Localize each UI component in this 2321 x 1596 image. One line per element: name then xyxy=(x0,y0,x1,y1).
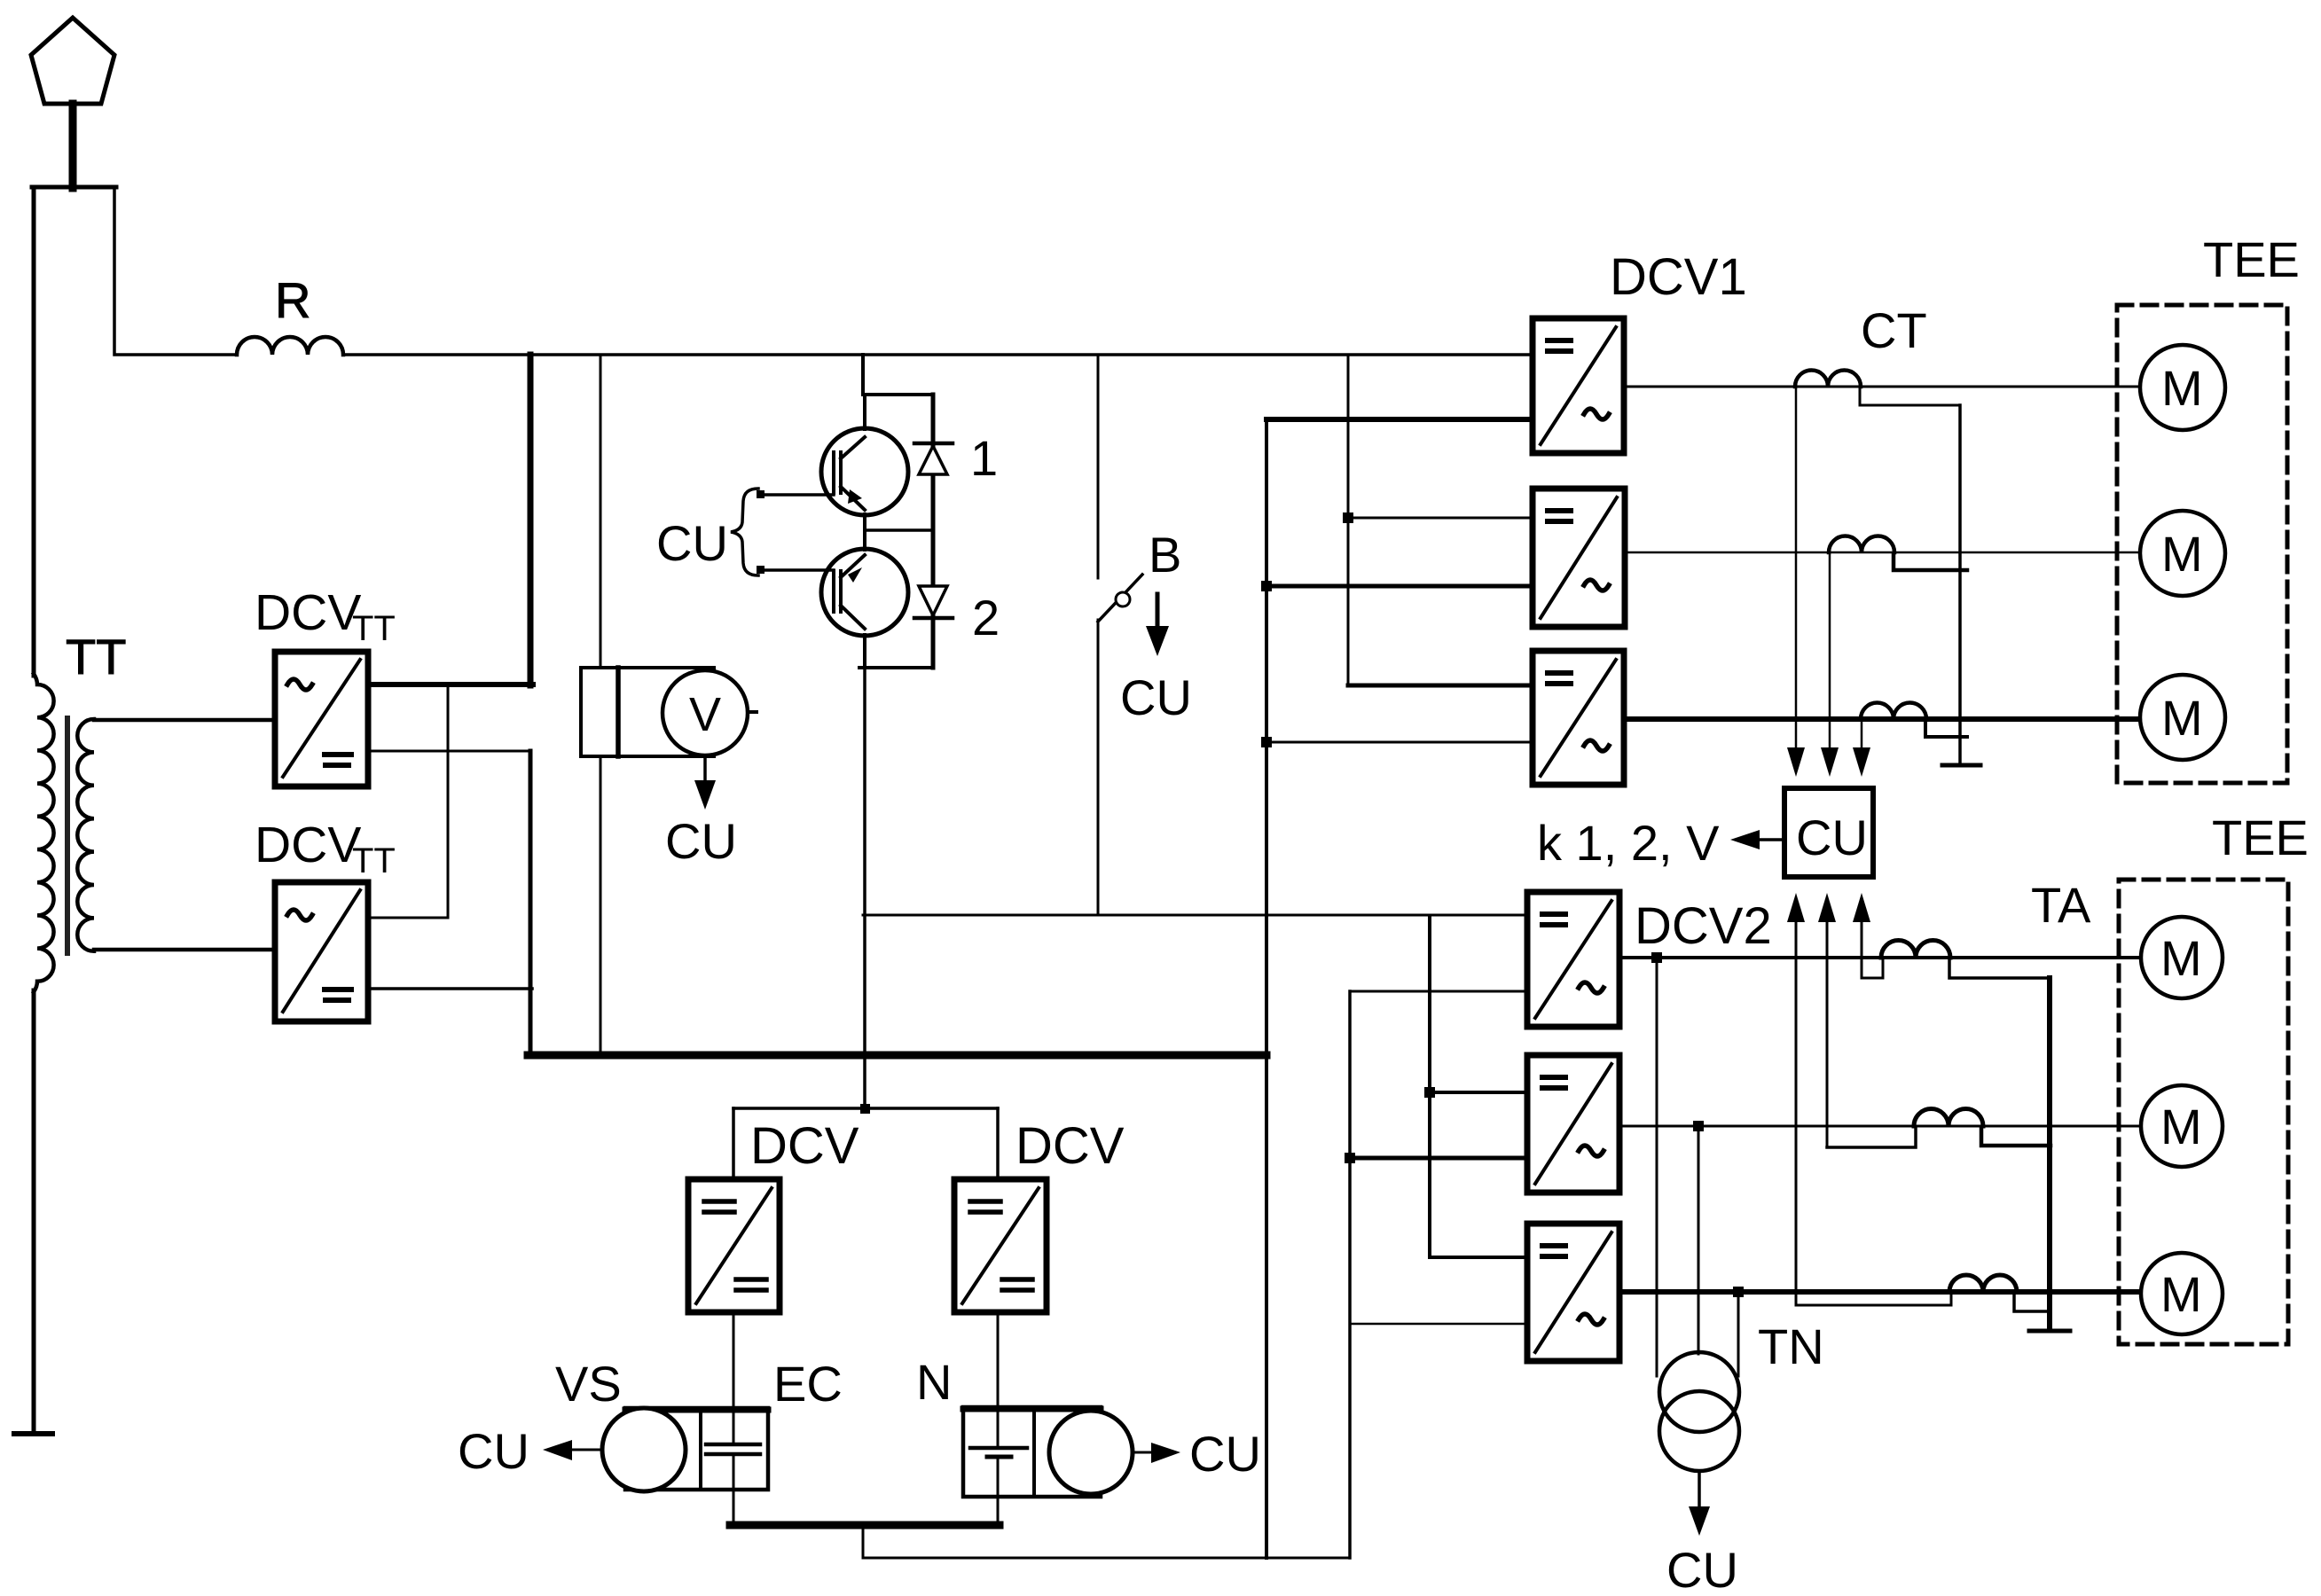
motor M6 xyxy=(2141,1253,2223,1334)
svg-text:k 1, 2, V: k 1, 2, V xyxy=(1537,815,1720,871)
wire mid link to diode branch xyxy=(865,528,933,532)
switch B blade xyxy=(1098,575,1142,622)
wire CT1 secondary right xyxy=(1860,388,1960,405)
converter DCV1-2 box xyxy=(1533,489,1625,627)
wire TA2 secondary right xyxy=(1981,1128,2050,1146)
wire vertical x1522 xyxy=(1348,991,1352,1558)
svg-text:M: M xyxy=(2160,1266,2202,1322)
current transformer TA3 xyxy=(1949,1275,2017,1292)
TEE box 1 xyxy=(2117,305,2287,783)
wire CT3 secondary down xyxy=(1861,719,1863,749)
wire TN output CU arrow xyxy=(1698,1471,1701,1510)
wire Q2 emitter down xyxy=(863,635,866,668)
motor M3 xyxy=(2140,675,2225,760)
svg-text:1: 1 xyxy=(970,430,998,486)
wire DCV2 input y1493 xyxy=(1350,1323,1527,1326)
svg-text:DCV: DCV xyxy=(255,817,361,873)
voltmeter V xyxy=(663,670,748,755)
wire TA1 secondary right xyxy=(1949,959,2050,978)
converter DCV2-1 box xyxy=(1527,892,1619,1027)
svg-text:TEE: TEE xyxy=(2212,810,2309,865)
wire N down to loop bottom xyxy=(997,1497,1000,1525)
svg-text:CU: CU xyxy=(1120,669,1192,725)
converter DCVTT1 box xyxy=(275,652,368,786)
sensor VS circle xyxy=(602,1408,686,1491)
motor M2 xyxy=(2140,511,2225,596)
svg-text:M: M xyxy=(2160,1099,2202,1154)
wire left rail lower xyxy=(32,990,36,1433)
wire vertical x1612 xyxy=(1428,918,1431,1257)
wire TT secondary bottom lead xyxy=(94,948,275,952)
wire motor4 xyxy=(1619,956,2141,959)
TEE box 2 xyxy=(2119,880,2288,1344)
capacitor N block xyxy=(963,1407,1101,1497)
svg-text:DCV: DCV xyxy=(750,1117,859,1175)
wire top bar xyxy=(32,185,116,190)
wire CT3 secondary right xyxy=(1925,721,1967,737)
converter DCVTT1 label xyxy=(255,584,396,648)
svg-text:DCV: DCV xyxy=(255,584,361,641)
wire motor5 xyxy=(1619,1125,2141,1128)
sensor N circle xyxy=(1049,1411,1133,1494)
svg-text:DCV: DCV xyxy=(1015,1117,1125,1175)
svg-text:R: R xyxy=(275,272,310,328)
switch B lower wire xyxy=(1097,620,1100,915)
wire loop stub down xyxy=(862,1527,865,1558)
wire transistor bottom bracket xyxy=(859,666,933,669)
svg-text:VS: VS xyxy=(555,1356,622,1412)
pantograph stem xyxy=(69,104,77,188)
converter DCV1-1 box xyxy=(1533,318,1624,453)
wire right drop to bus xyxy=(114,187,237,355)
wire N to CU arrow xyxy=(1133,1451,1153,1454)
motor M4 xyxy=(2141,917,2223,998)
wire CT1 secondary down xyxy=(1795,387,1798,749)
svg-text:V: V xyxy=(689,688,721,741)
wire CT2 secondary right xyxy=(1894,554,1967,570)
svg-text:TT: TT xyxy=(66,629,126,685)
wire loop right drop xyxy=(996,1108,1000,1179)
pantograph pentagon xyxy=(31,18,114,104)
wire left rail upper xyxy=(32,187,36,676)
wire DCV2 input y1118 xyxy=(1350,990,1527,993)
motor M1 xyxy=(2140,345,2225,430)
transformer TT secondary winding xyxy=(77,719,94,951)
svg-text:CU: CU xyxy=(1796,810,1868,865)
wire EC down to loop bottom xyxy=(733,1490,735,1525)
transistor Q1 xyxy=(821,428,908,515)
wire Q1 collector xyxy=(863,395,866,429)
svg-text:CU: CU xyxy=(656,515,728,571)
svg-text:CU: CU xyxy=(665,813,737,869)
wire vertical x1428 xyxy=(1265,419,1268,1558)
current transformer TA1 xyxy=(1881,941,1950,958)
transistor chain top bracket xyxy=(863,355,933,395)
diode 1 xyxy=(914,442,953,446)
current transformer CT3 xyxy=(1861,703,1926,720)
wire DCVTT1 output top xyxy=(368,682,533,687)
converter DCV2-3 box xyxy=(1527,1224,1619,1361)
svg-text:M: M xyxy=(2161,360,2203,416)
transformer TT primary winding xyxy=(34,674,54,992)
wire DCV1 input y837 xyxy=(1266,741,1533,744)
svg-text:2: 2 xyxy=(972,590,1000,645)
wire TN feeder 1 xyxy=(1656,958,1658,1376)
wire TT secondary top lead xyxy=(94,718,275,723)
wire gate lead Q1 xyxy=(759,493,834,497)
transformer TN xyxy=(1659,1352,1739,1432)
converter DCVTT2 label xyxy=(255,817,396,880)
wire DCV1 input y584 xyxy=(1348,517,1533,520)
wire motor2 xyxy=(1625,552,2141,554)
wire TA1 secondary left and up arrow xyxy=(1862,959,1883,978)
converter DCVTT2 box xyxy=(275,882,368,1021)
svg-text:M: M xyxy=(2161,526,2203,582)
wire CT common ground vertical xyxy=(1958,405,1962,764)
wire TA3 secondary right xyxy=(2014,1294,2047,1311)
wire vertical x677 upper xyxy=(600,355,602,668)
wire TN feeder 2 xyxy=(1698,1126,1700,1354)
wire top bus xyxy=(343,353,1533,356)
wire vertical x677 lower xyxy=(600,756,602,1055)
switch B CU arrow xyxy=(1156,594,1160,630)
converter DCV right box xyxy=(954,1179,1047,1312)
diode 2 xyxy=(919,586,947,615)
wire DCV1 input y473 xyxy=(1266,417,1533,422)
converter DCV1-3 box xyxy=(1533,651,1624,785)
svg-text:N: N xyxy=(916,1354,952,1410)
wire VS to CU arrow xyxy=(572,1449,602,1451)
svg-text:M: M xyxy=(2160,930,2202,986)
wire CT2 secondary down xyxy=(1829,552,1831,749)
svg-text:B: B xyxy=(1149,527,1181,583)
wire loop bottom thick xyxy=(730,1522,1000,1529)
svg-text:DCV2: DCV2 xyxy=(1635,897,1772,955)
wire motor6 xyxy=(1619,1289,2141,1295)
svg-text:TN: TN xyxy=(1758,1318,1824,1374)
wire between Q1 Q2 xyxy=(863,514,866,550)
wire DCV1 input y661 xyxy=(1266,584,1533,589)
motor M5 xyxy=(2141,1085,2223,1167)
wire TA2 secondary left and up arrow xyxy=(1827,1128,1916,1147)
wire thick vertical x598 upper xyxy=(528,355,534,685)
wire DCV2 input y1306 xyxy=(1350,1156,1527,1161)
svg-text:DCV1: DCV1 xyxy=(1610,248,1747,306)
wire DCVTT1 output bottom xyxy=(368,750,531,753)
wire TN feeder 3 xyxy=(1737,1292,1740,1376)
wire DCV1 input y773 xyxy=(1348,684,1533,688)
current transformer CT2 xyxy=(1829,536,1894,552)
wire transistor chain down to loop xyxy=(863,668,866,1108)
wire diode branch vertical xyxy=(931,395,936,668)
wire EC/N loop top xyxy=(733,1107,998,1110)
wire vertical x598 lower xyxy=(529,751,533,1055)
svg-text:TT: TT xyxy=(352,841,396,880)
ground rail bar xyxy=(14,1431,52,1436)
svg-text:CU: CU xyxy=(1189,1426,1261,1482)
wire loop left drop xyxy=(732,1108,735,1179)
converter DCV left box xyxy=(688,1179,780,1312)
svg-text:CU: CU xyxy=(458,1423,529,1479)
ground TA xyxy=(2029,1329,2070,1334)
svg-text:CU: CU xyxy=(1666,1542,1738,1596)
wire DCV left to EC xyxy=(733,1312,735,1408)
wire DCV right to N xyxy=(997,1312,1000,1407)
wire motor1 xyxy=(1624,386,2141,388)
capacitor EC block xyxy=(625,1408,768,1490)
transistor Q2 xyxy=(821,549,908,636)
wire bottom return line xyxy=(863,1557,1350,1560)
svg-text:CT: CT xyxy=(1861,302,1927,358)
wire vertical x1520 DCV1 feeder xyxy=(1347,355,1350,685)
switch B upper wire xyxy=(1097,355,1100,578)
wire DCV2 input y1418 xyxy=(1430,1256,1527,1259)
svg-text:TA: TA xyxy=(2031,877,2091,933)
voltage sensor box xyxy=(581,668,714,756)
converter DCV2-2 box xyxy=(1527,1055,1619,1193)
current transformer TA2 xyxy=(1914,1109,1983,1127)
wire TA3 secondary left and up arrow xyxy=(1796,1294,1951,1305)
wire mid bus y1032 xyxy=(863,914,1527,917)
svg-text:M: M xyxy=(2161,690,2203,746)
current transformer CT1 xyxy=(1795,371,1861,387)
control unit CU box xyxy=(1784,788,1873,877)
inductor R xyxy=(237,337,343,355)
svg-text:EC: EC xyxy=(773,1356,843,1412)
svg-text:TT: TT xyxy=(352,609,396,648)
wire motor3 xyxy=(1624,716,2141,722)
wire DCVTT2 output bottom xyxy=(368,987,532,990)
gate brace xyxy=(731,489,758,575)
svg-text:TEE: TEE xyxy=(2203,231,2300,287)
wire DCVTT2 output top riser x505 xyxy=(368,685,448,918)
wire TA common ground vertical xyxy=(2047,978,2052,1330)
wire voltmeter stub and CU arrow xyxy=(703,755,707,784)
ground CT xyxy=(1942,763,1980,768)
wire thick bottom bus y1190 xyxy=(528,1052,1266,1060)
transformer TT core xyxy=(65,718,70,953)
wire DCV2 input y1232 xyxy=(1430,1091,1527,1094)
wire gate lead Q2 xyxy=(759,568,834,572)
